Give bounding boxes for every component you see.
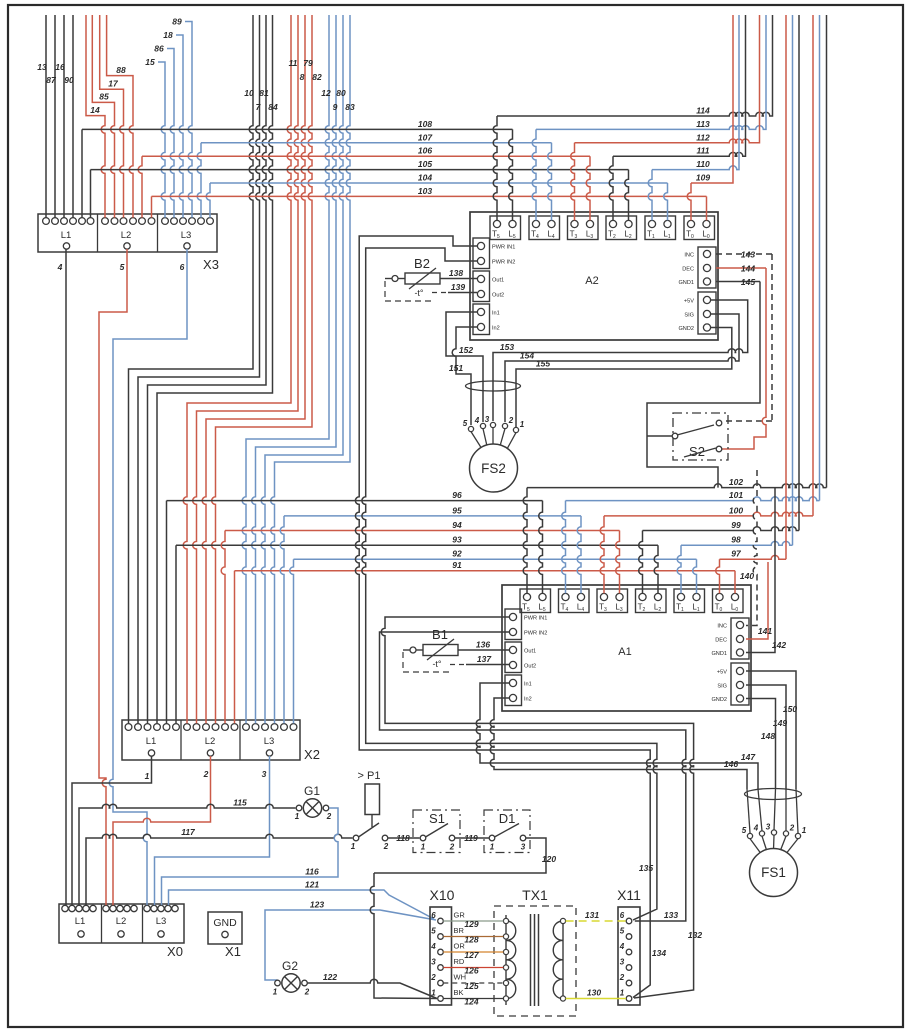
wire label 114 [696, 106, 710, 116]
wire 92 riser from X2 L3 pin6 [290, 559, 294, 723]
svg-text:GND: GND [213, 917, 237, 929]
terminal strip X11 [618, 907, 640, 1005]
svg-text:135: 135 [639, 863, 653, 873]
svg-text:153: 153 [500, 342, 514, 352]
svg-text:125: 125 [464, 981, 478, 991]
sensor D1 box [484, 810, 530, 853]
wire red staircase to X2 L2 pin 3 [202, 15, 305, 723]
wire descent into A1 T2 [639, 531, 643, 594]
wire label 104 [418, 173, 432, 183]
svg-text:1: 1 [520, 420, 525, 429]
wire from X3 L1 pin 3 to top [63, 15, 65, 218]
wire descent into A1 L5 [539, 501, 543, 594]
svg-text:In2: In2 [492, 326, 500, 332]
wire descent into A1 T1 [677, 545, 681, 593]
wire 147 [476, 683, 758, 789]
svg-text:138: 138 [449, 268, 463, 278]
wire label 16 [55, 62, 65, 72]
svg-text:108: 108 [418, 119, 432, 129]
svg-text:104: 104 [418, 173, 432, 183]
svg-text:127: 127 [464, 950, 479, 960]
wire black bottom into X10 pin1 [370, 873, 437, 999]
wire label 130 [587, 988, 601, 998]
wire label 155 [536, 359, 550, 369]
svg-text:114: 114 [696, 106, 710, 116]
wire 18 stub from X3 L3 [176, 35, 183, 218]
wire 96 [167, 500, 543, 502]
wire label 93 [452, 535, 462, 545]
wire label 123 [310, 900, 324, 910]
TX1 secondary winding [553, 918, 565, 1001]
svg-text:116: 116 [305, 867, 319, 877]
svg-text:GND2: GND2 [711, 697, 727, 703]
wire 98 riser to top right [792, 15, 794, 545]
svg-text:2: 2 [304, 988, 310, 997]
FS1 pin leads [750, 835, 798, 855]
switch S2 contacts [672, 420, 722, 457]
wire label 12 [321, 88, 331, 98]
wire label 126 [464, 965, 478, 975]
wire label 9 [333, 102, 338, 112]
wire 114 [497, 15, 773, 116]
wire label 153 [500, 342, 514, 352]
wire red staircase to X2 L2 pin 4 [212, 15, 312, 723]
svg-text:121: 121 [305, 880, 319, 890]
wire 130 yellow [566, 998, 626, 1000]
label B1 [432, 627, 448, 642]
label X10 [430, 887, 455, 903]
svg-text:1: 1 [490, 843, 495, 852]
wire label 119 [464, 833, 478, 843]
wire label 151 [449, 363, 463, 373]
svg-text:122: 122 [323, 972, 337, 982]
svg-text:2: 2 [430, 973, 436, 982]
wire label 88 [116, 65, 126, 75]
svg-text:124: 124 [464, 996, 478, 1006]
wire 1 [72, 756, 152, 905]
wire 95 riser from X2 L3 pin5 [280, 516, 284, 724]
FS2 pin leads [471, 428, 516, 449]
svg-text:In1: In1 [492, 311, 500, 317]
svg-text:137: 137 [477, 654, 492, 664]
svg-text:D1: D1 [499, 811, 516, 826]
svg-text:6: 6 [431, 911, 436, 920]
wire descent into A2 L1 [664, 183, 668, 220]
svg-text:In2: In2 [524, 697, 532, 703]
svg-text:X2: X2 [304, 747, 320, 762]
FS1 harness through sheath [747, 789, 798, 833]
wire 143 dashed vertical [771, 254, 773, 421]
wire label 152 [459, 345, 473, 355]
svg-text:2: 2 [508, 416, 514, 425]
wire label 122 [323, 972, 337, 982]
svg-text:1: 1 [351, 842, 356, 851]
svg-text:4: 4 [753, 824, 759, 833]
switch S1 contact [420, 824, 455, 852]
wire label 115 [233, 798, 247, 808]
wire label 134 [652, 948, 666, 958]
wire 3 number [262, 769, 267, 779]
wire label 144 [741, 264, 755, 274]
wire label 124 [464, 996, 478, 1006]
wire from X3 L1 pin 2 to top [54, 15, 56, 218]
wire 119 [455, 837, 489, 839]
svg-text:PWR IN1: PWR IN1 [524, 616, 547, 622]
svg-text:5: 5 [431, 927, 436, 936]
wire 107 riser from X3 L3 pin5 [197, 143, 201, 218]
svg-text:X1: X1 [225, 944, 241, 959]
svg-text:6: 6 [180, 262, 185, 272]
wire label 140 [740, 571, 754, 581]
wire 121 [169, 890, 435, 919]
wire from X3 L1 pin 1 to top [45, 15, 47, 218]
wire black staircase to X2 L1 pin 2 [138, 15, 260, 723]
FS1 cable sheath ellipse [745, 789, 802, 800]
wire label 138 [449, 268, 463, 278]
wire 126 [443, 967, 503, 969]
wire black staircase to X2 L1 pin 3 [148, 15, 267, 723]
svg-text:11: 11 [289, 58, 298, 68]
wire 98 [681, 541, 793, 545]
svg-text:L3: L3 [264, 736, 275, 747]
svg-text:Out2: Out2 [524, 664, 536, 670]
wire 88 from top to X3 L2 [107, 15, 133, 218]
wire label 17 [108, 79, 119, 89]
svg-text:107: 107 [418, 132, 433, 142]
svg-text:> P1: > P1 [358, 770, 381, 782]
svg-text:150: 150 [783, 704, 797, 714]
wire 108 riser from X3 L1 pin5 [81, 129, 83, 217]
FS2 connector pins 5-1 [463, 415, 525, 433]
wire label 99 [731, 520, 741, 530]
svg-text:100: 100 [729, 505, 743, 515]
B1 dashed outline [403, 652, 450, 672]
wire 123 [265, 910, 436, 980]
wire descent into A2 L3 [586, 156, 590, 220]
wire 1 number [145, 771, 150, 781]
svg-text:81: 81 [259, 88, 269, 98]
terminal block X3 [38, 214, 217, 252]
svg-text:131: 131 [585, 910, 599, 920]
wire label 143 [741, 250, 755, 260]
wire label 95 [452, 505, 462, 515]
B2 dashed outline [385, 281, 432, 301]
A1 connector INC/DEC/GND1 [711, 618, 749, 659]
svg-text:RD: RD [454, 957, 465, 966]
svg-text:119: 119 [464, 833, 478, 843]
wire blue staircase to X2 L3 pin 1 [242, 15, 329, 723]
svg-text:139: 139 [451, 282, 465, 292]
wire label 15 [145, 57, 155, 67]
wire label 102 [729, 477, 743, 487]
svg-text:PWR IN2: PWR IN2 [492, 260, 515, 266]
wire label 121 [305, 880, 319, 890]
wire 142 [746, 488, 775, 653]
svg-text:GND1: GND1 [711, 651, 727, 657]
svg-text:FS1: FS1 [761, 865, 786, 880]
wire descent into A2 T1 [648, 170, 652, 221]
wire 143 dashed into S2 [724, 420, 772, 422]
wire 89 stub from X3 L3 [185, 22, 192, 218]
wire 101 riser to top right [819, 15, 821, 501]
wire 133 A1 PWR IN2 feed via X11 pin6 [380, 632, 686, 921]
svg-text:BR: BR [454, 926, 465, 935]
wire label 85 [99, 92, 109, 102]
svg-text:1: 1 [145, 771, 150, 781]
FS1 connector pins 5-1 [742, 823, 807, 839]
wire label 18 [163, 30, 173, 40]
svg-text:2: 2 [449, 843, 455, 852]
wire 110 [652, 15, 739, 170]
B1 temperature mark [432, 659, 441, 669]
wire 128 [443, 936, 503, 938]
svg-text:3: 3 [262, 769, 267, 779]
fan FS2 [470, 444, 518, 492]
svg-text:84: 84 [268, 102, 278, 112]
wire blue staircase to X2 L3 pin 4 [271, 15, 350, 723]
svg-text:INC: INC [684, 253, 694, 259]
svg-text:86: 86 [154, 44, 164, 54]
wire 131 yellow [566, 920, 626, 922]
B2 temperature mark [414, 288, 423, 298]
wire label 82 [312, 72, 322, 82]
wire 111 [613, 15, 746, 156]
svg-text:1: 1 [431, 989, 436, 998]
A2 connector In1/In2 [473, 304, 500, 335]
wire 15 stub from X3 L3 [158, 62, 165, 218]
wire 137 [466, 664, 509, 666]
wire 125 [443, 982, 503, 984]
wire blue staircase to X2 L3 pin 2 [252, 15, 336, 723]
wire descent into A1 T0 [716, 559, 720, 593]
svg-text:105: 105 [418, 159, 432, 169]
wire label 90 [64, 75, 74, 85]
wire descent into A2 T3 [571, 143, 575, 221]
svg-text:96: 96 [452, 490, 462, 500]
wire 4 [65, 249, 67, 905]
switch S1 box [413, 810, 460, 853]
wire 96 riser from X2 L1 pin5 [166, 501, 168, 724]
wire 146 [490, 698, 747, 789]
wire 143 dashed [716, 253, 772, 255]
wire label 108 [418, 119, 432, 129]
label P1 [358, 770, 381, 782]
svg-text:+5V: +5V [684, 299, 694, 305]
wire 102 riser to top right [826, 15, 828, 488]
wire 155 [516, 328, 732, 428]
wire 99 riser to top right [798, 15, 800, 531]
wire 99 [643, 527, 800, 531]
svg-text:106: 106 [418, 146, 432, 156]
svg-text:9: 9 [333, 102, 338, 112]
wire 105 riser from X3 L1 pin6 [90, 170, 92, 218]
svg-text:SIG: SIG [684, 313, 694, 319]
wire 93 [176, 544, 658, 546]
svg-text:130: 130 [587, 988, 601, 998]
svg-text:BK: BK [454, 988, 464, 997]
wire red staircase to X2 L2 pin 1 [183, 15, 291, 723]
svg-text:109: 109 [696, 173, 710, 183]
svg-text:145: 145 [741, 277, 755, 287]
wire descent into A2 T4 [532, 129, 536, 220]
pressure switch P1 [365, 784, 380, 827]
wire 136 [458, 649, 509, 651]
wire 141 [746, 562, 768, 639]
svg-text:L1: L1 [146, 736, 157, 747]
wire label 111 [697, 146, 710, 156]
fan FS1 [750, 849, 798, 897]
svg-text:A2: A2 [585, 275, 598, 287]
svg-text:103: 103 [418, 186, 432, 196]
wire label 14 [90, 105, 100, 115]
svg-text:2: 2 [789, 824, 795, 833]
svg-text:143: 143 [741, 250, 755, 260]
wire label 81 [259, 88, 269, 98]
svg-text:117: 117 [181, 827, 196, 837]
wire label 135 [639, 863, 653, 873]
svg-text:L1: L1 [75, 916, 86, 927]
wire descent into A1 T3 [600, 516, 604, 594]
wire 124 [443, 998, 503, 1000]
wire descent into A1 L2 [654, 545, 658, 593]
wire 120 [374, 838, 546, 873]
svg-text:A1: A1 [618, 646, 631, 658]
wire 116 [162, 808, 339, 905]
wire 85 from top to X3 L2 [92, 15, 114, 218]
svg-text:1: 1 [620, 989, 625, 998]
svg-text:FS2: FS2 [481, 461, 506, 476]
svg-text:134: 134 [652, 948, 666, 958]
wire 139 dashed part [432, 292, 448, 294]
ground terminal GND X1 [208, 912, 242, 944]
wire label 92 [452, 549, 462, 559]
wire descent into A1 T4 [562, 501, 566, 594]
svg-text:In1: In1 [524, 682, 532, 688]
wire descent into A1 L0 [734, 571, 736, 594]
svg-text:5: 5 [120, 262, 125, 272]
svg-text:83: 83 [345, 102, 355, 112]
module A1 body with terminal boxes T5L5-T0L0 [502, 585, 751, 711]
wire descent into A2 T2 [609, 156, 613, 220]
svg-text:147: 147 [741, 752, 756, 762]
wire label 141 [758, 626, 772, 636]
svg-text:141: 141 [758, 626, 772, 636]
svg-text:X3: X3 [203, 257, 219, 272]
svg-text:3: 3 [620, 958, 625, 967]
svg-text:3: 3 [431, 958, 436, 967]
wire label 8 [300, 72, 305, 82]
svg-text:115: 115 [233, 798, 247, 808]
A1 connector In1/In2 [505, 675, 532, 706]
svg-text:144: 144 [741, 264, 755, 274]
wire 139 [448, 292, 477, 294]
P1 contact [351, 823, 389, 851]
svg-text:123: 123 [310, 900, 324, 910]
wire 2 [113, 756, 211, 905]
svg-text:140: 140 [740, 571, 754, 581]
wire 144 [716, 267, 766, 269]
wire 140 dashed [746, 470, 757, 626]
label B2 [414, 256, 430, 271]
svg-text:12: 12 [321, 88, 331, 98]
wire 145 [716, 281, 760, 283]
svg-text:95: 95 [452, 505, 462, 515]
svg-text:3: 3 [766, 823, 771, 832]
svg-text:1: 1 [273, 988, 278, 997]
svg-text:111: 111 [697, 146, 710, 156]
wire 106 [142, 155, 590, 157]
svg-text:G1: G1 [304, 784, 320, 798]
svg-text:133: 133 [664, 910, 678, 920]
wire 97 riser to top right [785, 15, 787, 559]
wire 104 [210, 182, 668, 184]
terminal block X0 [59, 904, 184, 943]
wire 153 [493, 300, 748, 421]
wire label 142 [772, 640, 786, 650]
label X1 [225, 944, 241, 959]
wire label 150 [783, 704, 797, 714]
label A2 [585, 275, 598, 287]
A2 connector INC/DEC/GND1 [678, 247, 716, 288]
wire label 120 [542, 854, 556, 864]
svg-text:14: 14 [90, 105, 100, 115]
wire label 117 [181, 827, 196, 837]
svg-text:10: 10 [244, 88, 254, 98]
wire descent into A2 T5 [493, 116, 497, 220]
wire label 10 [244, 88, 254, 98]
svg-text:1: 1 [421, 843, 426, 852]
svg-text:99: 99 [731, 520, 741, 530]
wire 132 A1 PWR IN1 feed via X11 pin1 [381, 617, 693, 998]
svg-text:128: 128 [464, 934, 478, 944]
wire black staircase to X2 L1 pin 4 [157, 15, 273, 723]
A2 connector PWR IN1/IN2 [473, 238, 515, 269]
svg-text:SIG: SIG [717, 684, 727, 690]
A1 connector Out1/Out2 [505, 642, 536, 673]
wire black staircase to X2 L1 pin 1 [129, 15, 254, 723]
svg-text:L2: L2 [116, 916, 127, 927]
svg-text:148: 148 [761, 731, 775, 741]
svg-text:113: 113 [696, 119, 710, 129]
wire label 145 [741, 277, 755, 287]
wire 103 [152, 195, 707, 197]
svg-text:L1: L1 [61, 230, 72, 241]
wire label 127 [464, 950, 479, 960]
svg-text:2: 2 [203, 769, 209, 779]
wire 152 [446, 312, 483, 422]
svg-text:8: 8 [300, 72, 305, 82]
wire 106 riser from X3 L2 pin5 [138, 156, 142, 217]
wire 100 riser to top right [812, 15, 814, 516]
svg-text:GND2: GND2 [678, 326, 694, 332]
wire descent into A1 L3 [616, 531, 620, 594]
svg-text:15: 15 [145, 57, 155, 67]
svg-text:82: 82 [312, 72, 322, 82]
wire label 147 [741, 752, 756, 762]
wire label 110 [696, 159, 710, 169]
wire 100 [604, 512, 813, 516]
FS2 cable sheath ellipse [466, 381, 521, 391]
transformer TX1 box [494, 906, 576, 1016]
wire label 105 [418, 159, 432, 169]
wire 151 [452, 327, 477, 425]
A2 connector +5V/SIG/GND2 [678, 292, 716, 334]
wire label 116 [305, 867, 319, 877]
wire label 6 [180, 262, 185, 272]
wire 144 vertical [722, 268, 766, 449]
sensor D1 contact [489, 824, 526, 852]
svg-text:98: 98 [731, 535, 741, 545]
